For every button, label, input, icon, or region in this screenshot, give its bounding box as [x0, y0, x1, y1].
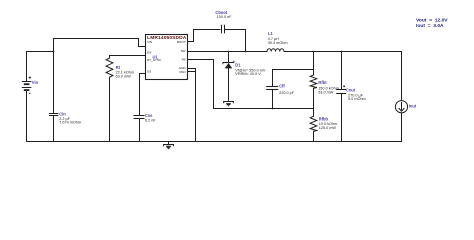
- wire BOOT to Cboot: [188, 30, 221, 42]
- svg-text:125.0 mW: 125.0 mW: [319, 126, 337, 130]
- wire VIN top rail: [54, 38, 139, 40]
- ground symbol below D1: [224, 102, 234, 107]
- label Cboot value: [215, 10, 232, 19]
- wire Cboot to SW node: [226, 30, 246, 52]
- svg-text:6.2 nF: 6.2 nF: [145, 118, 156, 122]
- label Cff value: [279, 84, 295, 95]
- svg-text:220.0 pF: 220.0 pF: [279, 91, 295, 95]
- inductor L1: [267, 49, 284, 52]
- label D1 value: [235, 63, 266, 76]
- wire Cin column upper: [53, 39, 55, 114]
- wire PAD stub: [188, 71, 196, 73]
- svg-text:Cin: Cin: [59, 111, 66, 116]
- resistor Rfbt: [310, 75, 317, 88]
- wire Cff column lower: [272, 90, 274, 109]
- wire GND stub: [188, 68, 196, 70]
- wire Vout rail L1 to right edge: [284, 51, 402, 53]
- svg-text:Cout: Cout: [346, 87, 356, 92]
- svg-text:PAD: PAD: [179, 70, 186, 74]
- wire Vout right column to load: [401, 52, 403, 101]
- wire Cin column lower: [53, 116, 55, 142]
- svg-text:Css: Css: [145, 113, 153, 118]
- wire Rt to EN pin: [110, 55, 146, 57]
- capacitor Cff: [266, 87, 278, 90]
- svg-text:SS: SS: [147, 69, 151, 73]
- label Rfbb value: [319, 116, 338, 130]
- svg-text:D1: D1: [235, 63, 241, 68]
- svg-text:100.0 nF: 100.0 nF: [217, 15, 233, 19]
- wire FB pin to FB node: [188, 60, 314, 109]
- wire Cff top to Rfbt column: [273, 69, 314, 71]
- capacitor Cboot: [222, 25, 225, 34]
- wire SS pin to Css column: [140, 73, 146, 75]
- capacitor Cout: [336, 90, 346, 94]
- svg-text:Rfbb: Rfbb: [319, 116, 329, 121]
- label Cout value: [346, 87, 366, 101]
- node junction SW/D1: [228, 51, 230, 53]
- wire battery column bottom: [26, 90, 28, 141]
- svg-text:SW: SW: [181, 49, 186, 53]
- label Css value: [145, 113, 156, 122]
- ground symbol on bottom rail: [164, 142, 174, 150]
- svg-text:EN: EN: [147, 51, 151, 55]
- node junction Cboot/SW: [245, 51, 247, 53]
- wire ground bottom rail: [27, 141, 402, 143]
- wire Cout column upper: [341, 52, 343, 90]
- wire GND/PAD column to rail: [195, 69, 197, 142]
- svg-text:VIN: VIN: [147, 40, 152, 44]
- wire D1 anode to ground: [228, 68, 230, 101]
- wire D1 column: [228, 52, 230, 63]
- svg-text:63.0 mW: 63.0 mW: [116, 75, 132, 79]
- node Cout label leader dot: [343, 86, 345, 88]
- wire Rfbb column top: [313, 109, 315, 117]
- svg-text:Rt: Rt: [116, 65, 121, 70]
- wire Css column lower: [139, 119, 141, 142]
- wire SW line from IC to L1: [188, 51, 268, 53]
- resistor Rt: [106, 56, 113, 142]
- resistor Rfbb: [310, 116, 317, 131]
- svg-text:Vin: Vin: [32, 80, 39, 85]
- svg-text:BOOT: BOOT: [177, 40, 186, 44]
- label Rfbt value: [318, 80, 339, 94]
- op IC U1 LMR14050SDDA box: [146, 35, 188, 80]
- wire VIN jog into pin: [139, 39, 146, 47]
- wire Cff column upper: [272, 70, 274, 87]
- svg-text:Vout = 12.0V: Vout = 12.0V: [416, 17, 448, 23]
- svg-text:63.0 mW: 63.0 mW: [318, 90, 334, 94]
- battery V1 Vin: [22, 76, 32, 93]
- node junction Cff/FB: [272, 108, 274, 110]
- wire battery top to Cin column: [27, 51, 54, 53]
- wire Css column upper: [139, 74, 141, 116]
- svg-text:5.0 mOhm: 5.0 mOhm: [348, 97, 366, 101]
- current source Iout load: [395, 101, 407, 113]
- svg-text:Rfbt: Rfbt: [318, 80, 327, 85]
- wire Cout column lower: [341, 94, 343, 142]
- node junction Vout/Rfbt: [313, 51, 315, 53]
- diode D1 schottky: [223, 61, 234, 69]
- svg-text:VRRM= 40.0 V: VRRM= 40.0 V: [235, 72, 261, 76]
- svg-text:RT_SYNC: RT_SYNC: [147, 58, 162, 62]
- capacitor Cin: [49, 114, 59, 116]
- svg-text:Iout: Iout: [409, 103, 417, 108]
- svg-text:Iout = 3.0A: Iout = 3.0A: [416, 23, 444, 29]
- label L1 value: [268, 31, 288, 45]
- svg-text:7.674 mOhm: 7.674 mOhm: [59, 120, 81, 124]
- wire battery column top: [26, 52, 28, 82]
- node junction Vout/Cout: [341, 51, 343, 53]
- wire load to bottom rail: [401, 113, 403, 142]
- label Rt value: [116, 65, 135, 79]
- svg-text:Cff: Cff: [279, 84, 285, 89]
- label Cin value: [59, 111, 81, 124]
- capacitor Css: [134, 116, 145, 119]
- svg-text:39.4 mOhm: 39.4 mOhm: [268, 41, 288, 45]
- node junction battery/Cin: [53, 51, 55, 53]
- svg-text:FB: FB: [182, 57, 186, 61]
- svg-text:L1: L1: [268, 31, 274, 36]
- wire Rfbt column top: [313, 52, 315, 76]
- wire Rfbb bottom to rail: [313, 131, 315, 141]
- wire Rfbt bottom to FB node: [313, 88, 315, 108]
